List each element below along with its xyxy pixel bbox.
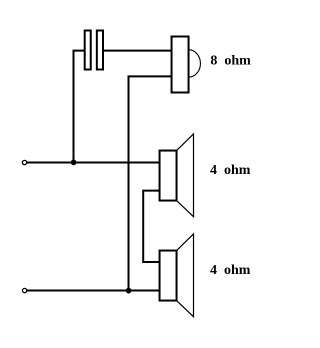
speaker SP3 cone (bottom 4 ohm)	[177, 234, 194, 317]
speaker SP2 body (middle 4 ohm rectangle)	[160, 151, 177, 201]
capacitor C1 left plate	[85, 31, 91, 70]
node B (bottom junction dot)	[126, 288, 132, 294]
terminal T2 (bottom input, open circle)	[22, 288, 26, 292]
speaker SP1 body (8 ohm rectangle)	[172, 37, 189, 93]
terminal T1 (top input, open circle)	[22, 160, 26, 164]
node A (top junction dot)	[71, 160, 77, 166]
svg-text:8 ohm: 8 ohm	[210, 54, 251, 69]
speaker SP1 dome (8 ohm tweeter)	[189, 50, 201, 77]
wire capacitor right plate to tweeter	[103, 50, 173, 52]
svg-text:4 ohm: 4 ohm	[210, 263, 251, 278]
speaker SP3 body (bottom 4 ohm rectangle)	[160, 251, 177, 301]
speaker SP2 cone (middle 4 ohm)	[177, 134, 194, 217]
wire tweeter lower terminal and vertical return line A down to bottom rail	[129, 76, 172, 290]
wire top rail	[27, 162, 160, 164]
wire bottom rail	[27, 290, 160, 292]
svg-text:4 ohm: 4 ohm	[210, 163, 251, 178]
wire SP2 lower terminal, vertical line B, SP3 upper terminal	[143, 191, 160, 262]
capacitor C1 right plate	[97, 31, 103, 70]
wire from node A up and over to capacitor left plate	[74, 51, 85, 163]
